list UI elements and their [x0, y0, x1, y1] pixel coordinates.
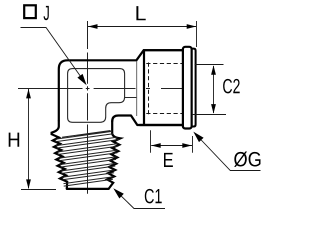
body outline: [59, 50, 183, 125]
male thread left zigzag: [52, 121, 68, 189]
label OG with leader: [196, 134, 261, 171]
male thread bottom edge: [67, 188, 109, 190]
label square-J with leader: [24, 5, 36, 18]
flange: [183, 47, 192, 129]
dimension C2: [192, 65, 226, 115]
male thread right zigzag: [107, 121, 120, 189]
thread crest lines: [55, 131, 119, 187]
label C1 with leader: [116, 191, 166, 209]
cylinder port outline: [140, 50, 183, 125]
body/cylinder tangent line: [136, 61, 138, 116]
dimension L: [88, 21, 197, 47]
inner cavity outline: [68, 69, 125, 123]
cylinder left face line: [143, 51, 145, 125]
centerline horizontal (side port axis / H top extension): [18, 88, 184, 90]
dimension E: [151, 130, 193, 153]
end cap: [192, 49, 196, 127]
dimension H: [21, 89, 56, 190]
hidden female thread (dashed): [146, 63, 189, 115]
centerline vertical (bottom port axis / L left extension): [87, 21, 89, 194]
side-port bore line in body: [125, 97, 137, 99]
